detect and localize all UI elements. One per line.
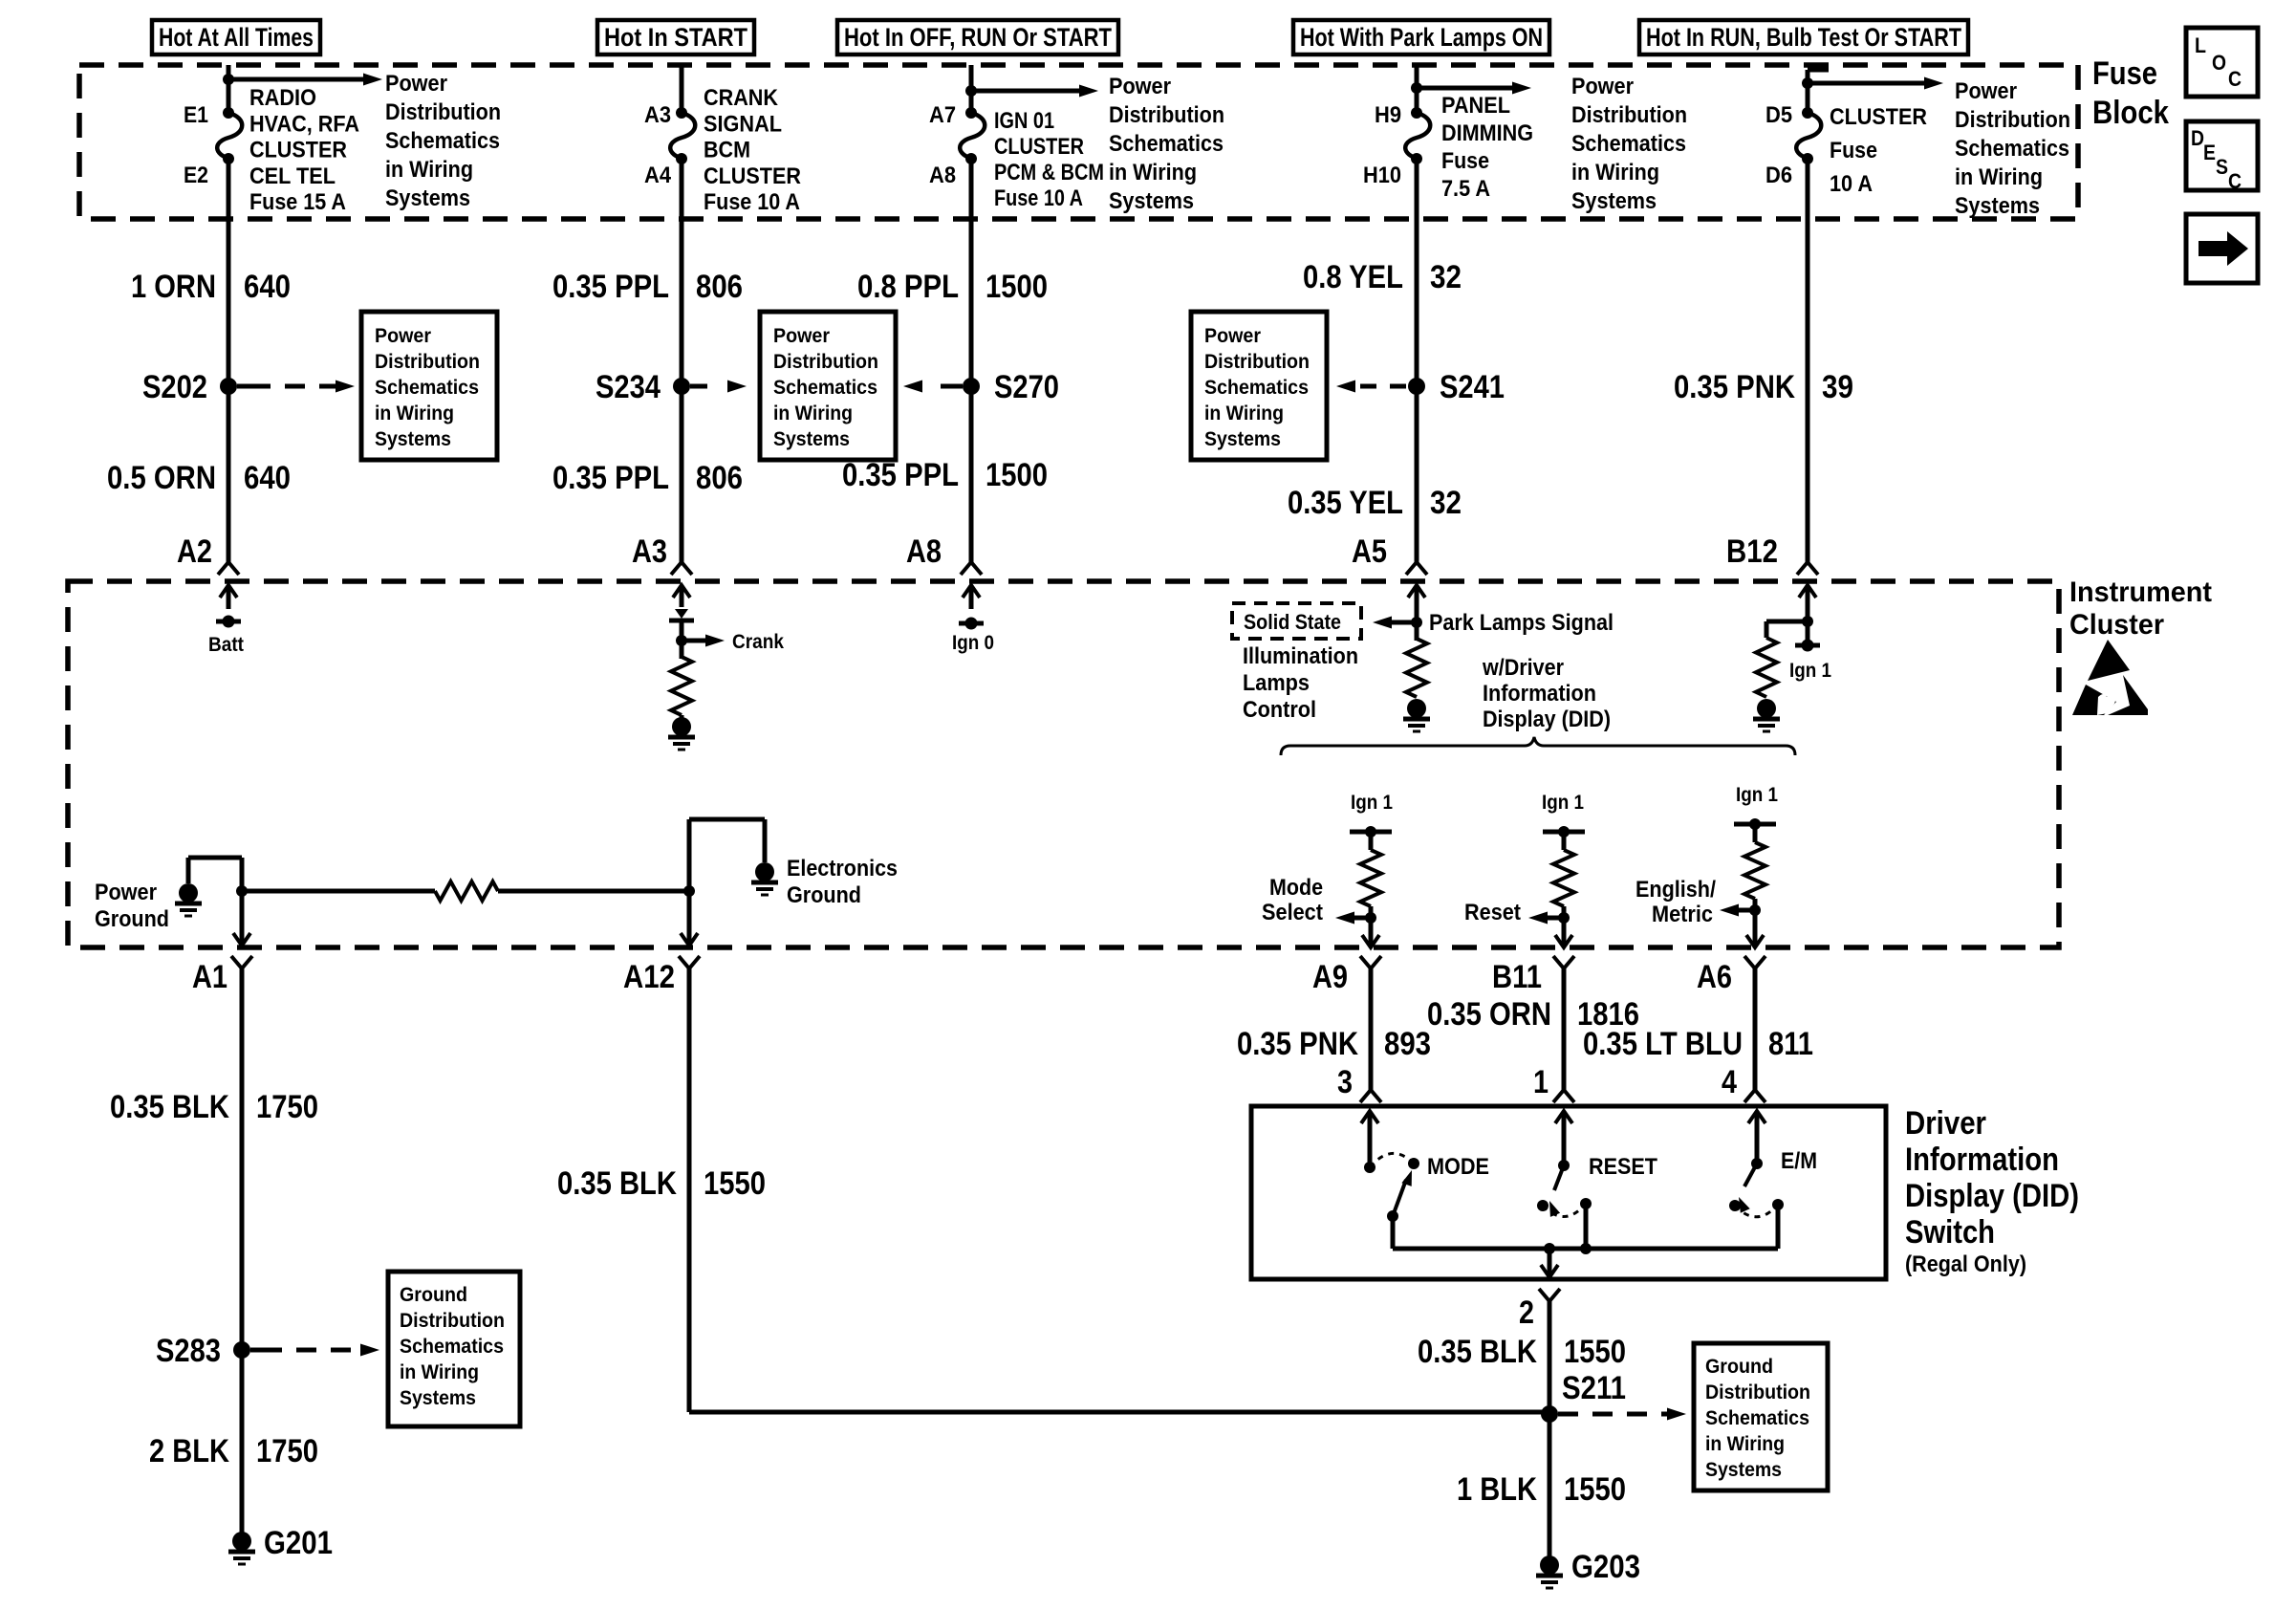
- wire label 0.35 PNK 39: [1674, 369, 1853, 405]
- fuse 2 label: [704, 85, 801, 215]
- svg-text:Systems: Systems: [1955, 193, 2040, 219]
- svg-text:Ign 1: Ign 1: [1351, 792, 1393, 814]
- svg-text:D: D: [2191, 126, 2204, 150]
- power distribution schematics box 2: [760, 312, 896, 460]
- svg-text:0.35 PPL: 0.35 PPL: [552, 269, 669, 305]
- svg-text:S283: S283: [156, 1333, 221, 1369]
- splice S283: [156, 1333, 250, 1369]
- resistor em: [1744, 842, 1765, 899]
- svg-text:Distribution: Distribution: [1204, 351, 1310, 373]
- pin 1: [1533, 1064, 1574, 1102]
- svg-text:1750: 1750: [256, 1089, 318, 1125]
- svg-text:C: C: [2228, 67, 2242, 91]
- svg-text:CLUSTER: CLUSTER: [249, 138, 347, 163]
- wire A1 to G201 (0.35 BLK 1750): [240, 968, 245, 1541]
- resistor illumination: [1406, 639, 1427, 697]
- ground illumination resistor: [1403, 699, 1430, 731]
- arrow A1 to border: [240, 891, 245, 946]
- svg-text:Crank: Crank: [732, 631, 784, 653]
- svg-text:1500: 1500: [986, 269, 1048, 305]
- splice S270: [963, 369, 1059, 405]
- svg-text:A9: A9: [1312, 959, 1348, 995]
- node W4 top junction: [1411, 82, 1422, 94]
- Crank feed arrow into cluster: [673, 585, 690, 607]
- switch MODE: [1361, 1111, 1489, 1249]
- wire label 0.35 BLK 1750: [110, 1089, 318, 1125]
- fuse block label: [2092, 55, 2169, 131]
- svg-text:A3: A3: [644, 102, 671, 128]
- svg-text:A6: A6: [1697, 959, 1732, 995]
- wire W3 fuse block segment: [969, 65, 974, 113]
- svg-text:Systems: Systems: [1204, 428, 1281, 450]
- wire label 0.35 PNK 893: [1237, 1026, 1431, 1062]
- splice S211: [1541, 1370, 1626, 1423]
- svg-text:English/: English/: [1635, 877, 1716, 903]
- svg-text:1500: 1500: [986, 457, 1048, 493]
- svg-text:7.5 A: 7.5 A: [1441, 176, 1490, 202]
- svg-text:Schematics: Schematics: [1109, 131, 1224, 157]
- svg-text:in Wiring: in Wiring: [1571, 160, 1659, 185]
- svg-text:SIGNAL: SIGNAL: [704, 111, 782, 137]
- DESC reference box: [2186, 121, 2258, 193]
- wire W1 fuse block segment: [227, 65, 231, 113]
- svg-text:A7: A7: [929, 102, 956, 128]
- connector A12: [623, 956, 700, 995]
- connector B12: [1726, 533, 1818, 575]
- wire label 0.35 BLK 1550 (S211): [1418, 1334, 1626, 1370]
- svg-text:0.35 BLK: 0.35 BLK: [1418, 1334, 1537, 1370]
- wire label 1 BLK 1550: [1457, 1471, 1626, 1508]
- svg-text:Ground: Ground: [1705, 1356, 1773, 1378]
- forward arrow reference box: [2186, 214, 2258, 283]
- ground power symbol: [179, 883, 198, 903]
- wire feed to resistor (em): [1753, 824, 1758, 842]
- wire W4 fuse block segment: [1415, 65, 1419, 113]
- illumination lamps control label: [1243, 643, 1358, 723]
- svg-text:in Wiring: in Wiring: [385, 157, 473, 183]
- svg-text:0.5 ORN: 0.5 ORN: [107, 460, 216, 496]
- wire resistor to border (reset): [1562, 906, 1567, 918]
- label box "Hot With Park Lamps ON": [1293, 20, 1549, 54]
- svg-text:Metric: Metric: [1652, 902, 1713, 927]
- svg-text:Switch: Switch: [1905, 1214, 1995, 1251]
- resistor reset: [1553, 850, 1574, 906]
- svg-text:HVAC, RFA: HVAC, RFA: [249, 111, 359, 137]
- svg-text:C: C: [2228, 169, 2242, 193]
- label box "Hot At All Times": [152, 20, 320, 54]
- svg-text:0.35 LT BLU: 0.35 LT BLU: [1583, 1026, 1743, 1062]
- node W1 top junction: [223, 74, 234, 85]
- svg-text:A2: A2: [177, 533, 212, 570]
- connector A3 cluster: [632, 533, 692, 575]
- svg-text:S211: S211: [1562, 1370, 1626, 1406]
- svg-text:Fuse: Fuse: [2092, 55, 2157, 92]
- svg-text:1550: 1550: [1564, 1471, 1626, 1508]
- svg-text:MODE: MODE: [1427, 1154, 1489, 1180]
- svg-text:in Wiring: in Wiring: [1705, 1433, 1785, 1455]
- dashed arrow S283 to ground distribution box: [250, 1344, 379, 1357]
- arrow mode to border: [1369, 918, 1374, 947]
- svg-text:CLUSTER: CLUSTER: [1830, 104, 1927, 130]
- wire label 0.35 PPL 1500: [842, 457, 1048, 493]
- wire B11 to switch (0.35 ORN 1816): [1562, 968, 1567, 1090]
- node Ign 1 feed (em): [1734, 818, 1776, 830]
- node W5 top junction: [1802, 77, 1813, 89]
- svg-text:BCM: BCM: [704, 138, 750, 163]
- node reset junction: [1558, 912, 1570, 924]
- svg-text:Power: Power: [375, 325, 431, 347]
- wire label 0.35 PPL 806 upper: [552, 269, 743, 305]
- svg-text:in Wiring: in Wiring: [773, 402, 853, 424]
- svg-text:Reset: Reset: [1464, 900, 1521, 925]
- svg-text:Fuse 10 A: Fuse 10 A: [704, 189, 800, 215]
- svg-text:1 BLK: 1 BLK: [1457, 1471, 1537, 1508]
- wire W3 to cluster (0.8 PPL 1500): [969, 159, 974, 562]
- wire label 0.8 YEL 32: [1303, 259, 1462, 295]
- connector A2: [177, 533, 239, 575]
- svg-text:Ground: Ground: [95, 906, 169, 932]
- fuse block dashed border: [79, 65, 2078, 219]
- svg-text:Hot At All Times: Hot At All Times: [159, 23, 314, 52]
- svg-text:Distribution: Distribution: [1705, 1382, 1810, 1403]
- svg-text:1550: 1550: [1564, 1334, 1626, 1370]
- label box "Hot In START": [597, 20, 754, 54]
- svg-text:2: 2: [1519, 1295, 1534, 1331]
- arrow em to border: [1753, 910, 1758, 947]
- wire W4 inside cluster: [1415, 609, 1419, 641]
- wire B12 junction segment: [1806, 607, 1810, 642]
- ground crank resistor: [668, 715, 695, 750]
- svg-text:1: 1: [1533, 1064, 1549, 1100]
- svg-text:Select: Select: [1262, 900, 1323, 925]
- node em junction: [1749, 904, 1761, 916]
- wire branch to ign1 resistor: [1766, 620, 1808, 624]
- svg-text:B11: B11: [1492, 959, 1542, 995]
- svg-text:B12: B12: [1726, 533, 1778, 570]
- ground G203: [1536, 1549, 1640, 1588]
- svg-text:Hot In RUN, Bulb Test Or START: Hot In RUN, Bulb Test Or START: [1646, 23, 1961, 52]
- svg-text:Systems: Systems: [1571, 188, 1657, 214]
- svg-text:Fuse 15 A: Fuse 15 A: [249, 189, 346, 215]
- svg-text:Display (DID): Display (DID): [1483, 707, 1611, 732]
- power distribution note 4: [1955, 78, 2070, 219]
- wire label 0.35 ORN 1816: [1427, 996, 1639, 1033]
- arrow to power distribution (fuse E1): [228, 74, 382, 86]
- node A1 junction: [236, 885, 248, 897]
- svg-text:S234: S234: [596, 369, 661, 405]
- DID switch box: [1251, 1106, 1886, 1279]
- svg-text:10 A: 10 A: [1830, 171, 1873, 197]
- pin 4: [1722, 1064, 1765, 1102]
- svg-text:0.35 PPL: 0.35 PPL: [842, 457, 959, 493]
- svg-text:w/Driver: w/Driver: [1482, 655, 1564, 681]
- svg-text:811: 811: [1768, 1026, 1813, 1062]
- svg-text:PCM & BCM: PCM & BCM: [994, 160, 1104, 185]
- svg-text:39: 39: [1822, 369, 1853, 405]
- ground electronics symbol: [751, 856, 898, 908]
- english/metric label: [1635, 877, 1716, 927]
- Crank terminal bar: [669, 609, 694, 620]
- node Crank junction: [676, 635, 687, 646]
- power distribution note 3: [1571, 74, 1687, 214]
- svg-text:Distribution: Distribution: [1955, 107, 2070, 133]
- connector A5: [1352, 533, 1427, 575]
- wire W1 to cluster (1 ORN 640): [227, 159, 231, 562]
- svg-text:Systems: Systems: [1109, 188, 1194, 214]
- label box "Hot In OFF, RUN Or START": [837, 20, 1118, 54]
- svg-text:0.35 PPL: 0.35 PPL: [552, 460, 669, 496]
- svg-text:Illumination: Illumination: [1243, 643, 1358, 669]
- node Batt: [208, 616, 244, 657]
- pin 3: [1337, 1064, 1381, 1102]
- node W3 top junction: [965, 85, 977, 97]
- svg-text:Schematics: Schematics: [1204, 377, 1309, 399]
- svg-text:Information: Information: [1905, 1142, 2059, 1178]
- svg-text:Fuse: Fuse: [1441, 148, 1489, 174]
- svg-text:4: 4: [1722, 1064, 1737, 1100]
- ground G201: [228, 1525, 333, 1564]
- wire label 0.35 BLK 1550 (A12): [557, 1165, 766, 1202]
- svg-text:Schematics: Schematics: [375, 377, 479, 399]
- connector A6: [1697, 956, 1765, 995]
- svg-text:1550: 1550: [704, 1165, 766, 1202]
- power distribution schematics box 1: [361, 312, 497, 460]
- resistor ground bus: [435, 881, 498, 901]
- LOC reference box: [2186, 28, 2258, 97]
- wire W2 to cluster (0.35 PPL 806): [680, 159, 684, 562]
- svg-text:Systems: Systems: [375, 428, 451, 450]
- fuse 4 label: [1441, 93, 1533, 202]
- svg-text:3: 3: [1337, 1064, 1353, 1100]
- node Ign 1 feed (mode): [1350, 826, 1392, 838]
- switch RESET: [1537, 1111, 1657, 1249]
- svg-text:32: 32: [1430, 259, 1462, 295]
- dashed arrow S241 to schematics box: [1336, 381, 1406, 393]
- node Ign 0: [952, 618, 994, 655]
- connector pin 2: [1519, 1289, 1560, 1331]
- wire label 0.35 PPL 806 lower: [552, 460, 743, 496]
- ground distribution schematics box 1: [388, 1272, 520, 1426]
- svg-text:Ground: Ground: [400, 1284, 467, 1306]
- wire label 0.35 YEL 32: [1288, 485, 1462, 521]
- svg-text:CLUSTER: CLUSTER: [994, 134, 1084, 160]
- svg-text:Ign 0: Ign 0: [952, 632, 994, 654]
- resistor ign1 (cluster): [1756, 638, 1777, 697]
- solid state dashed box: [1232, 603, 1361, 639]
- node mode junction: [1365, 912, 1376, 924]
- wire label 2 BLK 1750: [149, 1433, 318, 1469]
- wire W4 to cluster (0.8 YEL 32): [1415, 159, 1419, 562]
- Ign 0 feed arrow into cluster: [963, 585, 980, 609]
- wire power ground loop: [186, 858, 191, 883]
- svg-text:in Wiring: in Wiring: [1955, 164, 2043, 190]
- svg-text:Hot In OFF, RUN Or START: Hot In OFF, RUN Or START: [844, 23, 1112, 52]
- svg-text:S270: S270: [994, 369, 1059, 405]
- svg-text:Park Lamps Signal: Park Lamps Signal: [1429, 610, 1614, 636]
- fuse 5 label: [1830, 104, 1927, 197]
- wire feed to resistor (mode): [1369, 832, 1374, 850]
- svg-text:Power: Power: [385, 71, 447, 97]
- wire label 1 ORN 640: [131, 269, 291, 305]
- wire W5 to cluster (0.35 PNK 39): [1806, 159, 1810, 562]
- svg-text:Lamps: Lamps: [1243, 670, 1310, 696]
- svg-text:CEL TEL: CEL TEL: [249, 163, 336, 189]
- brace for DID group: [1281, 737, 1795, 755]
- fuse PANEL DIMMING 7.5A (H9-H10): [1405, 107, 1430, 164]
- node Ign 1 feed: [1789, 640, 1831, 683]
- arrow A12 to border: [687, 891, 692, 946]
- svg-text:Mode: Mode: [1269, 875, 1323, 901]
- instrument cluster dashed border: [68, 581, 2059, 947]
- svg-text:D5: D5: [1765, 102, 1792, 128]
- dashed arrow S270 to schematics box: [903, 381, 963, 393]
- node bus reset: [1580, 1243, 1592, 1254]
- DID switch label: [1905, 1105, 2079, 1277]
- svg-text:893: 893: [1384, 1026, 1431, 1062]
- wire W2 fuse block segment: [680, 65, 684, 113]
- svg-text:Systems: Systems: [400, 1387, 476, 1409]
- svg-text:32: 32: [1430, 485, 1462, 521]
- svg-text:Distribution: Distribution: [400, 1310, 505, 1332]
- node Park Lamps junction: [1411, 617, 1422, 628]
- svg-text:in Wiring: in Wiring: [375, 402, 454, 424]
- svg-text:640: 640: [244, 269, 291, 305]
- svg-text:H10: H10: [1363, 163, 1401, 188]
- svg-text:Systems: Systems: [1705, 1459, 1782, 1481]
- svg-text:A5: A5: [1352, 533, 1387, 570]
- connector A8: [906, 533, 982, 575]
- svg-text:Display (DID): Display (DID): [1905, 1178, 2079, 1214]
- node B12 junction: [1802, 616, 1813, 627]
- svg-text:806: 806: [696, 269, 743, 305]
- arrow em signal: [1720, 904, 1755, 917]
- svg-text:Schematics: Schematics: [1571, 131, 1686, 157]
- label box "Hot In RUN, Bulb Test Or START": [1639, 20, 1968, 54]
- svg-text:Control: Control: [1243, 697, 1316, 723]
- w/Driver Information Display label: [1482, 655, 1611, 732]
- ESD sensitive symbol: [2072, 640, 2148, 715]
- Batt feed arrow into cluster: [220, 585, 237, 609]
- svg-text:Schematics: Schematics: [385, 128, 500, 154]
- fuse RADIO/HVAC 15A (E1-E2): [217, 107, 242, 164]
- svg-text:Power: Power: [1571, 74, 1634, 99]
- connector A9: [1312, 956, 1381, 995]
- svg-text:IGN 01: IGN 01: [994, 108, 1054, 134]
- splice S234: [596, 369, 690, 405]
- svg-text:RADIO: RADIO: [249, 85, 316, 111]
- power ground label: [95, 880, 169, 932]
- svg-text:Power: Power: [1109, 74, 1171, 99]
- svg-text:Electronics: Electronics: [787, 856, 898, 881]
- svg-text:in Wiring: in Wiring: [1109, 160, 1197, 185]
- wire feed to resistor (reset): [1562, 832, 1567, 850]
- svg-text:H9: H9: [1375, 102, 1401, 128]
- arrow to Crank: [682, 631, 784, 653]
- svg-text:Ign 1: Ign 1: [1789, 660, 1831, 682]
- svg-text:0.35 PNK: 0.35 PNK: [1237, 1026, 1358, 1062]
- svg-text:806: 806: [696, 460, 743, 496]
- svg-text:0.35 BLK: 0.35 BLK: [557, 1165, 677, 1202]
- svg-text:O: O: [2212, 51, 2226, 75]
- svg-text:Batt: Batt: [208, 634, 244, 656]
- svg-text:Power: Power: [773, 325, 830, 347]
- svg-text:Schematics: Schematics: [1705, 1407, 1809, 1429]
- power distribution note 1: [385, 71, 501, 211]
- svg-text:A8: A8: [906, 533, 942, 570]
- arrow to power distribution (fuse D5): [1808, 77, 1943, 90]
- dashed arrow S211 to ground distribution box: [1558, 1408, 1686, 1421]
- svg-text:640: 640: [244, 460, 291, 496]
- svg-text:Hot With Park Lamps ON: Hot With Park Lamps ON: [1300, 23, 1543, 52]
- fuse 3 label: [994, 108, 1104, 211]
- wire A9 to switch (0.35 PNK 893): [1369, 968, 1374, 1090]
- svg-text:Cluster: Cluster: [2069, 609, 2164, 641]
- wire resistor to border (em): [1753, 899, 1758, 910]
- svg-text:Distribution: Distribution: [1109, 102, 1224, 128]
- svg-text:S241: S241: [1440, 369, 1505, 405]
- arrow mode signal: [1335, 912, 1371, 925]
- svg-text:0.35 YEL: 0.35 YEL: [1288, 485, 1403, 521]
- svg-text:Distribution: Distribution: [385, 99, 501, 125]
- wire switch bus: [1393, 1247, 1778, 1251]
- wire A12 to S211 (0.35 BLK 1550): [687, 968, 692, 1412]
- svg-text:E2: E2: [184, 163, 208, 188]
- svg-text:Distribution: Distribution: [375, 351, 480, 373]
- arrow switch output: [1548, 1249, 1552, 1277]
- fuse 1 label: [249, 85, 359, 215]
- svg-text:A12: A12: [623, 959, 675, 995]
- svg-text:Ign 1: Ign 1: [1736, 784, 1778, 806]
- wire W5 fuse block segment: [1806, 70, 1810, 113]
- svg-text:in Wiring: in Wiring: [1204, 402, 1284, 424]
- svg-text:Power: Power: [1955, 78, 2017, 104]
- svg-text:Fuse 10 A: Fuse 10 A: [994, 185, 1083, 211]
- arrow to power distribution (fuse A7): [971, 85, 1098, 98]
- node bus output: [1544, 1243, 1555, 1254]
- dashed arrow S202 to schematics box: [237, 381, 355, 393]
- svg-text:Information: Information: [1483, 681, 1596, 707]
- svg-text:Distribution: Distribution: [773, 351, 878, 373]
- fuse CRANK 10A (A3-A4): [670, 107, 695, 164]
- resistor crank pull-down: [671, 657, 692, 715]
- dashed arrow S234 to schematics box: [690, 381, 747, 393]
- svg-text:S202: S202: [142, 369, 207, 405]
- svg-text:G201: G201: [264, 1525, 333, 1561]
- node A12 junction: [683, 885, 695, 897]
- svg-text:E: E: [2203, 141, 2216, 164]
- svg-text:Instrument: Instrument: [2069, 577, 2212, 608]
- svg-text:A4: A4: [644, 163, 672, 188]
- wire ground bus: [242, 889, 435, 894]
- svg-text:0.8 PPL: 0.8 PPL: [857, 269, 959, 305]
- svg-text:Driver: Driver: [1905, 1105, 1986, 1142]
- svg-text:A3: A3: [632, 533, 667, 570]
- wire pin2 to G203 (0.35 BLK 1550): [1548, 1301, 1552, 1565]
- wire A6 to switch (0.35 LT BLU 811): [1753, 968, 1758, 1090]
- svg-text:Solid State: Solid State: [1244, 610, 1341, 634]
- splice S202: [142, 369, 237, 405]
- resistor mode: [1360, 850, 1381, 906]
- svg-text:RESET: RESET: [1589, 1154, 1657, 1180]
- Park Lamps feed arrow into cluster: [1408, 585, 1425, 609]
- Ign 1 feed arrow into cluster (B12): [1799, 585, 1816, 607]
- svg-text:(Regal Only): (Regal Only): [1905, 1251, 2026, 1277]
- svg-text:CRANK: CRANK: [704, 85, 779, 111]
- wire label 0.8 PPL 1500: [857, 269, 1048, 305]
- power distribution schematics box 3: [1191, 312, 1327, 460]
- mode select label: [1262, 875, 1323, 925]
- power distribution note 2: [1109, 74, 1224, 214]
